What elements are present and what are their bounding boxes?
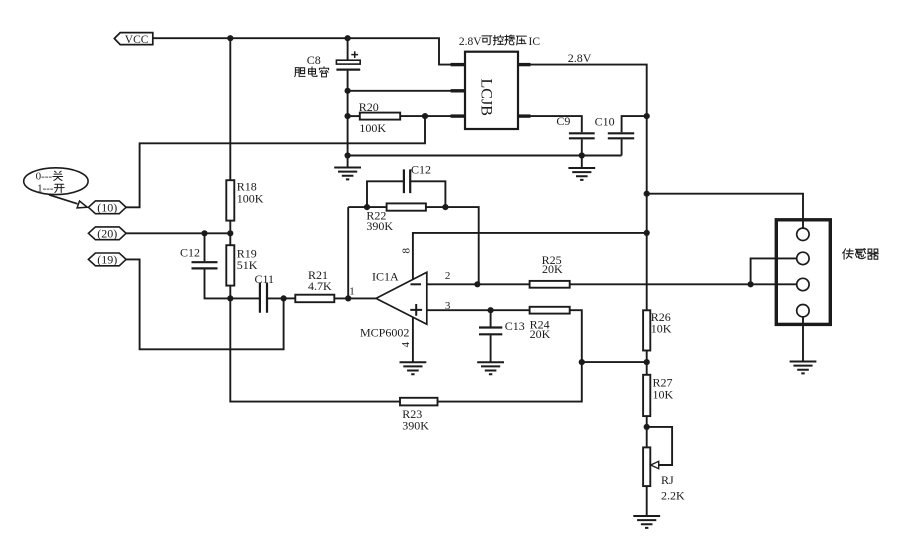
wire C10 top stub bbox=[622, 116, 647, 132]
node divider right junction bbox=[644, 359, 650, 365]
wire feedback riser bbox=[347, 207, 349, 298]
label C8 value (dan dian rong) bbox=[295, 68, 305, 77]
wire sensor pin 2 link bbox=[751, 258, 797, 284]
connector pin circle 1 bbox=[797, 228, 809, 240]
pin LCJB left 2 bbox=[451, 89, 465, 92]
op-amp plus sign bbox=[410, 304, 422, 316]
svg-text:2.2K: 2.2K bbox=[661, 489, 685, 503]
svg-text:(20): (20) bbox=[97, 227, 117, 241]
svg-text:0---: 0--- bbox=[36, 170, 53, 182]
resistor R23 bbox=[400, 398, 438, 406]
wire R20 right to LCJB pin 3 bbox=[400, 115, 451, 117]
svg-text:10K: 10K bbox=[651, 321, 672, 335]
pin LCJB left 1 bbox=[451, 63, 465, 66]
wire net19 bbox=[126, 259, 284, 349]
node pin3 C13 junction bbox=[488, 307, 494, 313]
wire VCC to R18 bbox=[229, 38, 231, 180]
ground RJ bbox=[633, 516, 660, 528]
wire op-amp pin 8 rail bbox=[413, 233, 647, 279]
port flag (19) bbox=[88, 253, 126, 266]
potentiometer RJ bbox=[643, 447, 650, 486]
wire net10 riser bbox=[126, 116, 425, 207]
node 2.8V op-amp tap bbox=[644, 230, 650, 236]
resistor R22 bbox=[387, 203, 426, 210]
wire ground rail bbox=[348, 155, 622, 157]
svg-text:100K: 100K bbox=[237, 192, 264, 206]
wire VCC rail bbox=[153, 38, 451, 64]
wire R21 to op-amp output bbox=[334, 297, 376, 299]
svg-text:1: 1 bbox=[349, 285, 355, 297]
wire net20 bbox=[126, 232, 230, 234]
resistor R18 bbox=[226, 180, 234, 220]
node 2.8V-C10 junction bbox=[644, 113, 650, 119]
node C11-R21 junction bbox=[281, 295, 287, 301]
wire RJ wiper link bbox=[647, 427, 672, 465]
capacitor C12 input bbox=[192, 262, 218, 268]
svg-text:4: 4 bbox=[400, 342, 412, 348]
wire pin 2 row bbox=[427, 283, 530, 285]
svg-text:(10): (10) bbox=[97, 201, 117, 215]
wire R21 left stub bbox=[284, 297, 296, 299]
wire C12 feedback left bbox=[367, 181, 404, 207]
wire C8 to LCJB pin 2 bbox=[348, 90, 451, 92]
node C8-LCJB pin2 junction bbox=[345, 88, 351, 94]
wire RJ bottom stub bbox=[646, 486, 648, 516]
node op-amp output junction bbox=[345, 295, 351, 301]
resistor R19 bbox=[226, 245, 234, 285]
wire R20 left stub bbox=[348, 115, 360, 117]
wire R19 bottom to R23 row bbox=[230, 286, 400, 402]
svg-text:100K: 100K bbox=[359, 121, 386, 135]
svg-text:IC1A: IC1A bbox=[372, 270, 399, 284]
ground op-amp pin 4 bbox=[400, 362, 427, 374]
ground for C8 rail bbox=[334, 168, 361, 180]
svg-text:2.8V: 2.8V bbox=[568, 51, 592, 65]
node sensor pins junction bbox=[748, 281, 754, 287]
svg-text:390K: 390K bbox=[366, 219, 393, 233]
wire C12 stub bottom bbox=[205, 269, 231, 298]
wire R26 bottom link bbox=[646, 351, 648, 375]
wire pin 3 row bbox=[427, 309, 530, 311]
wire C8 top stub bbox=[347, 38, 349, 60]
svg-text:390K: 390K bbox=[402, 418, 429, 432]
wire C9 bottom stub bbox=[581, 139, 583, 168]
node R22 right junction bbox=[442, 204, 448, 210]
capacitor C12 feedback bbox=[404, 169, 410, 193]
annotation arrow bbox=[49, 195, 78, 204]
connector pin circle 3 bbox=[797, 278, 809, 290]
ground C13 bbox=[477, 362, 504, 374]
node C12 top junction bbox=[201, 230, 207, 236]
op-amp minus sign bbox=[411, 283, 422, 285]
wire R24 right to divider bbox=[570, 310, 582, 362]
svg-text:4.7K: 4.7K bbox=[308, 279, 332, 293]
svg-text:1---: 1--- bbox=[37, 182, 54, 194]
svg-text:C9: C9 bbox=[556, 114, 570, 128]
node VCC-C8 junction bbox=[345, 35, 351, 41]
op-amp U2 IC1A bbox=[376, 272, 427, 324]
capacitor C13 bbox=[479, 328, 502, 335]
svg-text:20K: 20K bbox=[530, 327, 551, 341]
svg-text:3: 3 bbox=[445, 300, 451, 312]
resistor R25 bbox=[530, 281, 570, 288]
resistor R27 bbox=[643, 375, 650, 416]
node R22 left junction bbox=[364, 204, 370, 210]
svg-text:C11: C11 bbox=[255, 272, 275, 286]
annotation ellipse 0-off 1-on bbox=[24, 168, 88, 195]
svg-text:(19): (19) bbox=[97, 253, 117, 267]
wire C13 top stub bbox=[490, 310, 492, 326]
pin LCJB left 3 bbox=[451, 114, 465, 117]
capacitor C9 bbox=[569, 133, 595, 138]
node ground rail left junction bbox=[345, 152, 351, 158]
label sensor (chuan gan qi) bbox=[843, 249, 854, 259]
wire LCJB pin to C9 bbox=[531, 116, 582, 132]
resistor R26 bbox=[643, 310, 650, 350]
wire R23 to divider bbox=[438, 362, 582, 402]
port flag (20) bbox=[88, 227, 126, 240]
capacitor C8 bbox=[336, 60, 360, 64]
resistor R21 bbox=[295, 295, 334, 303]
svg-text:8: 8 bbox=[400, 247, 412, 253]
svg-text:C13: C13 bbox=[505, 319, 525, 333]
node pin2 feedback junction bbox=[474, 281, 480, 287]
wire C8 bottom to ground bbox=[347, 71, 349, 168]
port flag (10) bbox=[88, 201, 126, 214]
pin LCJB right 2 bbox=[518, 114, 531, 117]
svg-text:C8: C8 bbox=[307, 53, 321, 67]
node R20 right junction bbox=[422, 113, 428, 119]
svg-text:MCP6002: MCP6002 bbox=[360, 326, 409, 340]
svg-text:C12: C12 bbox=[411, 162, 431, 176]
svg-text:LCJB: LCJB bbox=[478, 79, 495, 116]
svg-text:10K: 10K bbox=[653, 387, 674, 401]
wire C12 stub top bbox=[204, 233, 206, 261]
wire 2.8V to sensor pin 1 bbox=[647, 194, 803, 229]
svg-text:2: 2 bbox=[445, 270, 451, 282]
wire R18-R19 link bbox=[229, 221, 231, 246]
resistor R24 bbox=[530, 307, 570, 314]
node divider left junction bbox=[579, 359, 585, 365]
potentiometer RJ wiper arrow bbox=[651, 461, 659, 468]
ground sensor bbox=[790, 362, 817, 374]
wire C11 left stub bbox=[230, 297, 260, 299]
wire R25 right row bbox=[570, 283, 797, 285]
ground for C9 C10 bbox=[568, 168, 595, 180]
power flag VCC bbox=[114, 33, 153, 45]
node C9 ground junction bbox=[579, 152, 585, 158]
node summing junction left bbox=[227, 295, 233, 301]
svg-text:51K: 51K bbox=[237, 258, 258, 272]
svg-text:R20: R20 bbox=[359, 100, 379, 114]
node R18-R19 junction bbox=[227, 230, 233, 236]
connector pin circle 2 bbox=[797, 252, 809, 264]
wire op-amp pin 4 stub bbox=[412, 316, 414, 363]
svg-text:IC: IC bbox=[529, 36, 541, 48]
wire C11 right stub bbox=[267, 297, 284, 299]
svg-text:C12: C12 bbox=[180, 245, 200, 259]
wire R27 bottom link bbox=[646, 416, 648, 447]
wire sensor pin 4 ground stub bbox=[802, 317, 804, 362]
node VCC-R18 junction bbox=[227, 35, 233, 41]
resistor R20 bbox=[360, 113, 400, 120]
wire C13 bottom stub bbox=[490, 335, 492, 362]
svg-text:VCC: VCC bbox=[125, 34, 149, 46]
pin LCJB right 1 bbox=[518, 63, 531, 66]
node R27-RJ junction bbox=[644, 424, 650, 430]
wire C10 bottom stub bbox=[621, 139, 623, 155]
node 2.8V sensor tap bbox=[644, 191, 650, 197]
capacitor C10 bbox=[608, 133, 634, 138]
svg-text:20K: 20K bbox=[542, 262, 563, 276]
node R20 left junction bbox=[345, 113, 351, 119]
connector J1 sensor bbox=[776, 220, 830, 325]
connector pin circle 4 bbox=[797, 305, 809, 317]
svg-text:RJ: RJ bbox=[661, 473, 674, 487]
IC U1 LCJB regulator bbox=[465, 52, 518, 129]
wire C12 feedback right bbox=[410, 181, 445, 207]
wire R22 right to inverting input bbox=[426, 207, 479, 284]
wire divider link bbox=[582, 361, 647, 363]
wire 2.8V rail bbox=[531, 65, 647, 311]
svg-text:2.8V: 2.8V bbox=[459, 36, 482, 48]
capacitor C11 bbox=[260, 283, 267, 313]
wire R22 left stub bbox=[348, 206, 386, 208]
svg-text:C10: C10 bbox=[595, 115, 615, 129]
